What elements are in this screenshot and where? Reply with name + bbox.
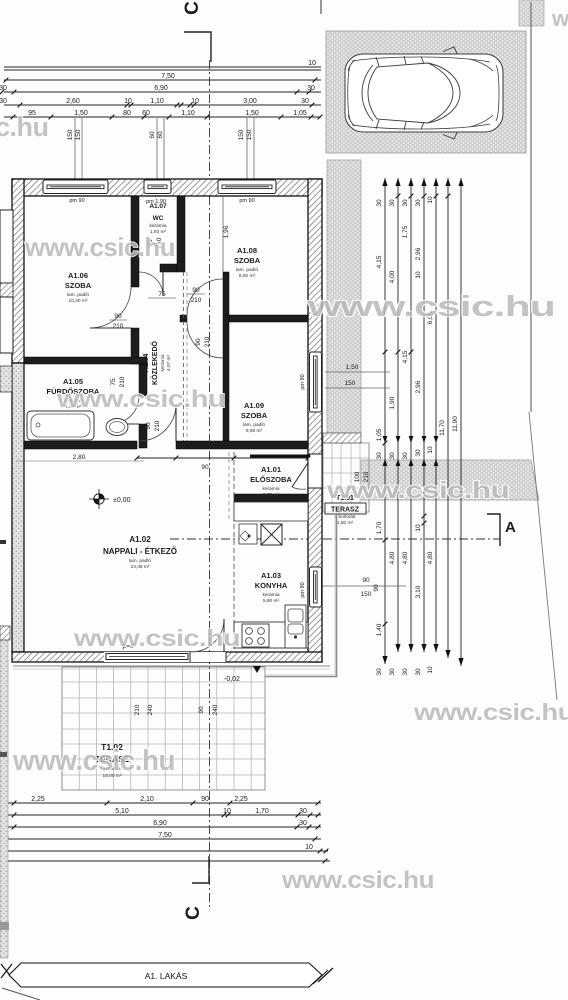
svg-text:90: 90: [114, 313, 122, 320]
wall bath right lower: [139, 424, 147, 448]
title arrow box A1. LAKAS: [9, 963, 322, 987]
room label A1.06 SZOBA: [65, 271, 92, 304]
svg-text:A1. LAKÁS: A1. LAKÁS: [145, 971, 188, 981]
svg-text:90: 90: [373, 584, 380, 592]
room label T1.01 TERASZ: [325, 503, 366, 514]
svg-text:11,70: 11,70: [439, 420, 446, 436]
svg-text:kerámia: kerámia: [262, 592, 279, 598]
window kitchen right wall: [309, 567, 322, 607]
svg-text:lam. padló: lam. padló: [243, 422, 265, 428]
door opening bottom (terrace door): [190, 652, 226, 662]
svg-text:2,25: 2,25: [234, 796, 248, 803]
svg-text:1,70: 1,70: [255, 808, 269, 815]
svg-text:4,00: 4,00: [389, 270, 396, 283]
section mark C top: [184, 32, 211, 62]
svg-text:1,80 m²: 1,80 m²: [337, 520, 354, 526]
svg-text:30: 30: [307, 85, 315, 92]
wall WC left: [131, 196, 139, 287]
wall A1.08 bottom right: [229, 315, 308, 322]
step hatch bottom-left outside: [0, 626, 10, 640]
svg-text:WC: WC: [153, 215, 164, 222]
svg-text:9,65 m²: 9,65 m²: [246, 428, 263, 434]
svg-text:60: 60: [142, 110, 150, 117]
svg-text:6,90: 6,90: [154, 85, 168, 92]
svg-text:A1.06: A1.06: [68, 271, 88, 280]
svg-text:240: 240: [212, 704, 219, 715]
door WC: [139, 272, 163, 296]
svg-text:10,40 m²: 10,40 m²: [69, 298, 88, 304]
svg-text:2,96: 2,96: [415, 380, 422, 393]
sliding window bottom (living): [104, 652, 190, 662]
property line right: [530, 2, 532, 412]
svg-text:10: 10: [124, 98, 132, 105]
svg-text:210: 210: [191, 297, 202, 304]
svg-text:3,10: 3,10: [415, 585, 422, 598]
exterior wall top: [12, 179, 322, 196]
svg-text:30: 30: [389, 199, 396, 207]
svg-text:3,70 m²: 3,70 m²: [263, 492, 280, 498]
svg-text:2,10: 2,10: [140, 796, 154, 803]
svg-text:4,07 m²: 4,07 m²: [166, 354, 172, 371]
step hatch above T1.01: [323, 433, 361, 443]
svg-text:SZOBA: SZOBA: [65, 281, 92, 290]
svg-text:90: 90: [201, 464, 209, 471]
svg-text:2,25: 2,25: [31, 796, 45, 803]
svg-text:2,96: 2,96: [415, 247, 422, 260]
svg-text:1,50: 1,50: [346, 364, 359, 371]
wall WC right: [177, 196, 185, 272]
svg-text:150: 150: [345, 380, 356, 387]
svg-text:-0,02: -0,02: [224, 676, 240, 683]
wall bath right upper: [139, 364, 147, 396]
section line A horizontal dash-dot: [170, 538, 500, 540]
svg-text:30: 30: [402, 668, 409, 676]
window W3 top (A1.08, 150): [218, 180, 276, 195]
svg-text:2,60: 2,60: [66, 98, 80, 105]
neighbor wall outline upper left: [0, 210, 13, 283]
svg-text:10: 10: [427, 666, 434, 674]
svg-text:lam. padló: lam. padló: [129, 558, 151, 564]
svg-text:pm 1,90: pm 1,90: [146, 199, 166, 205]
exterior wall left lower (speckled): [12, 363, 24, 652]
walkway vertical strip: [327, 160, 361, 433]
door living-terrace: [191, 619, 224, 652]
svg-text:30: 30: [389, 452, 396, 460]
wall bottom band left: [24, 441, 137, 449]
svg-text:210: 210: [204, 336, 211, 347]
room label A1.04 KOZLEKEDO rotated: [143, 340, 172, 385]
svg-text:SZOBA: SZOBA: [241, 411, 268, 420]
svg-text:pm 90: pm 90: [239, 198, 254, 204]
svg-text:10: 10: [223, 808, 231, 815]
parking pavement top right: [326, 31, 526, 153]
svg-text:80: 80: [123, 110, 131, 117]
svg-text:30: 30: [376, 668, 383, 676]
fridge (X box): [261, 524, 282, 545]
svg-text:kerámia: kerámia: [262, 486, 279, 492]
svg-text:150: 150: [238, 129, 245, 140]
marks on strip: [0, 540, 6, 544]
svg-text:10: 10: [191, 98, 199, 105]
svg-text:4,80: 4,80: [389, 551, 396, 564]
wall A1.09 left: [223, 272, 229, 441]
dashed boundary kitchen/living: [233, 452, 235, 650]
svg-text:NAPPALI - ÉTKEZŐ: NAPPALI - ÉTKEZŐ: [103, 547, 177, 556]
svg-text:www.csic.hu: www.csic.hu: [551, 6, 568, 31]
exterior wall bottom: [12, 652, 322, 662]
svg-text:240: 240: [147, 704, 154, 715]
svg-text:30: 30: [299, 808, 307, 815]
neighbor hatch block: [0, 283, 13, 297]
washing machine: [239, 524, 257, 544]
svg-text:1,05: 1,05: [293, 110, 307, 117]
interior dim line below band: [137, 457, 308, 459]
svg-text:30: 30: [389, 668, 396, 676]
svg-text:10: 10: [308, 60, 316, 67]
svg-text:10: 10: [305, 844, 313, 851]
svg-text:C: C: [182, 1, 203, 15]
door entrance: [292, 487, 306, 489]
room label A1.08 SZOBA: [234, 246, 261, 279]
svg-text:A1.05: A1.05: [63, 377, 83, 386]
neighbor gray block bath level: [0, 366, 12, 392]
hall cabinet band: [234, 502, 308, 521]
neighbor wall outline lower: [0, 297, 13, 353]
svg-text:90: 90: [198, 706, 205, 714]
bathtub: [27, 411, 94, 440]
svg-text:11,90: 11,90: [452, 416, 459, 432]
A109 window dim leaders: [325, 371, 390, 373]
stove: [242, 624, 269, 647]
door A1.06: [90, 287, 131, 328]
svg-text:10: 10: [415, 524, 422, 532]
room label A1.01 ELOSZOBA: [250, 465, 292, 498]
svg-text:60: 60: [157, 131, 164, 139]
window W1 top (A1.06, 150): [43, 180, 108, 195]
property line diagonal: [529, 412, 557, 700]
kitchen counter: [234, 622, 308, 648]
svg-text:90: 90: [201, 796, 209, 803]
svg-text:±0,00: ±0,00: [113, 497, 131, 504]
svg-text:4,80: 4,80: [427, 551, 434, 564]
door A1.09 (lower arc): [187, 322, 223, 358]
kitchen window dim leader: [322, 585, 406, 587]
section line C vertical dash-dot: [209, 60, 211, 908]
svg-text:75: 75: [110, 378, 117, 386]
svg-text:A1.09: A1.09: [244, 401, 264, 410]
svg-text:30: 30: [415, 449, 422, 457]
svg-text:f. burkolat: f. burkolat: [334, 514, 356, 520]
svg-text:4,15: 4,15: [376, 255, 383, 268]
room label A1.02 NAPPALI-ETKEZO: [103, 535, 177, 570]
svg-text:A1.04: A1.04: [143, 354, 150, 373]
svg-text:210: 210: [113, 323, 124, 330]
svg-text:30: 30: [0, 85, 7, 92]
room label T1.02 TERASZ: [95, 742, 129, 779]
level mark -0,02 terrace: [253, 666, 261, 673]
sink unit: [285, 605, 306, 648]
section mark A: [487, 514, 500, 546]
svg-text:KÖZLEKEDŐ: KÖZLEKEDŐ: [150, 340, 159, 385]
exterior wall right: [308, 179, 322, 662]
svg-text:1,70: 1,70: [376, 521, 383, 534]
svg-text:5,10: 5,10: [115, 808, 129, 815]
svg-text:lam. padló: lam. padló: [67, 292, 89, 298]
svg-text:30: 30: [376, 452, 383, 460]
wall bottom band right: [176, 441, 308, 449]
svg-text:210: 210: [154, 420, 161, 431]
svg-text:C: C: [183, 906, 204, 920]
svg-text:24,48 m²: 24,48 m²: [131, 564, 150, 570]
svg-text:7,50: 7,50: [161, 73, 175, 80]
svg-text:30: 30: [402, 199, 409, 207]
svg-text:1,10: 1,10: [181, 110, 195, 117]
svg-text:10: 10: [415, 271, 422, 279]
alcove boundary line A1.08: [222, 196, 224, 272]
entrance door opening right wall: [309, 454, 322, 488]
svg-text:30: 30: [299, 820, 307, 827]
svg-text:90: 90: [192, 287, 200, 294]
svg-text:pm 90: pm 90: [300, 374, 306, 389]
svg-text:30: 30: [402, 452, 409, 460]
svg-text:75: 75: [158, 291, 166, 298]
bottom-left diagonal: [2, 988, 40, 1000]
room label A1.05 FURDOSZOBA: [47, 377, 100, 410]
svg-text:www.csic.hu: www.csic.hu: [413, 699, 568, 725]
svg-text:1,96: 1,96: [223, 225, 230, 238]
window width labels rotated: [67, 129, 253, 140]
svg-text:90: 90: [195, 338, 202, 346]
svg-text:2,80: 2,80: [73, 454, 86, 461]
terrace attach lines: [13, 665, 330, 667]
svg-text:7,50: 7,50: [158, 832, 172, 839]
door corridor-living: [139, 404, 176, 441]
room label A1.07 WC: [149, 203, 167, 235]
svg-text:4,80: 4,80: [402, 551, 409, 564]
wall bath top: [24, 357, 147, 364]
neighbor strip bottom left: [0, 626, 8, 958]
svg-text:1,90: 1,90: [389, 396, 396, 409]
svg-text:A: A: [505, 519, 516, 536]
svg-text:kerámia: kerámia: [160, 354, 166, 371]
parking stub line top: [320, 0, 322, 14]
svg-text:www.csic.hu: www.csic.hu: [326, 477, 509, 503]
svg-text:1,50: 1,50: [74, 110, 88, 117]
svg-text:210: 210: [134, 704, 141, 715]
svg-text:www.csic.hu: www.csic.hu: [56, 386, 225, 413]
svg-text:ELŐSZOBA: ELŐSZOBA: [250, 475, 292, 484]
svg-text:A1.08: A1.08: [237, 246, 257, 255]
svg-text:30: 30: [376, 199, 383, 207]
walkway horizontal band to street: [361, 460, 539, 500]
svg-text:1,10: 1,10: [150, 98, 164, 105]
svg-text:90: 90: [362, 577, 370, 584]
svg-text:1,75: 1,75: [402, 225, 409, 238]
svg-text:8,60 m²: 8,60 m²: [239, 273, 256, 279]
svg-text:A1.01: A1.01: [261, 465, 281, 474]
svg-text:www.csic.hu: www.csic.hu: [307, 291, 555, 323]
room label A1.03 KONYHA: [255, 571, 288, 604]
dimension chain top: [4, 67, 321, 117]
svg-text:10: 10: [427, 196, 434, 204]
svg-text:30: 30: [301, 98, 309, 105]
pavement block top right corner: [519, 0, 544, 26]
svg-text:www.csic.hu: www.csic.hu: [73, 625, 240, 651]
terrace T1.02 tiled area: [62, 667, 265, 790]
window A1.09 right wall: [309, 352, 322, 412]
terrace T1.01 tiled area: [323, 443, 369, 512]
svg-text:KONYHA: KONYHA: [255, 581, 288, 590]
svg-text:150: 150: [361, 591, 372, 598]
bottom-left X mark: [1, 964, 12, 978]
door bathroom: [111, 396, 139, 424]
svg-text:1,40: 1,40: [376, 623, 383, 636]
window guide lines: [75, 118, 254, 180]
svg-text:lam. padló: lam. padló: [236, 267, 258, 273]
svg-text:150: 150: [75, 129, 82, 140]
svg-text:www.csic.hu: www.csic.hu: [281, 867, 434, 894]
svg-text:A1.03: A1.03: [261, 571, 281, 580]
svg-text:5,90 m²: 5,90 m²: [263, 598, 280, 604]
window W2 top (WC, 60): [144, 180, 171, 195]
svg-text:c.hu: c.hu: [0, 112, 49, 142]
svg-text:1,50: 1,50: [245, 110, 259, 117]
svg-text:www.csic.hu: www.csic.hu: [24, 232, 175, 262]
svg-text:10: 10: [427, 446, 434, 454]
exterior wall left upper (hatched): [12, 179, 24, 363]
room label A1.09 SZOBA: [241, 401, 268, 434]
wall A1.08 bottom cap: [180, 315, 187, 322]
svg-text:1,05: 1,05: [376, 428, 383, 441]
svg-text:90: 90: [145, 422, 152, 430]
level mark +-0,00: [89, 489, 109, 509]
wall eloszoba-konyha: [234, 494, 308, 502]
dashed beam line below WC: [183, 272, 185, 441]
svg-text:30: 30: [0, 98, 7, 105]
svg-text:www.csic.hu: www.csic.hu: [12, 745, 175, 777]
wall WC bottom: [160, 264, 177, 272]
svg-text:pm 90: pm 90: [300, 582, 306, 597]
svg-text:3,00: 3,00: [243, 98, 257, 105]
car top view: [345, 47, 503, 139]
svg-text:pm 90: pm 90: [69, 198, 84, 204]
svg-text:6,90: 6,90: [153, 820, 167, 827]
svg-text:SZOBA: SZOBA: [234, 256, 261, 265]
svg-text:A1.02: A1.02: [129, 535, 151, 544]
svg-text:kerámia: kerámia: [149, 223, 166, 229]
svg-text:30: 30: [415, 199, 422, 207]
eaves/footing line SE corner: [265, 513, 337, 677]
dimension chain bottom: [2, 803, 330, 861]
svg-text:60: 60: [149, 131, 156, 139]
section mark C bottom: [192, 856, 209, 883]
dimension chain right vertical: [385, 178, 461, 666]
door A1.08 (upper arc): [187, 279, 223, 315]
svg-text:4,15: 4,15: [402, 350, 409, 363]
svg-text:TERASZ: TERASZ: [331, 507, 360, 514]
wall A1.06 right lower: [131, 328, 139, 364]
svg-text:30: 30: [415, 668, 422, 676]
svg-text:150: 150: [67, 129, 74, 140]
washbasin: [106, 419, 128, 436]
